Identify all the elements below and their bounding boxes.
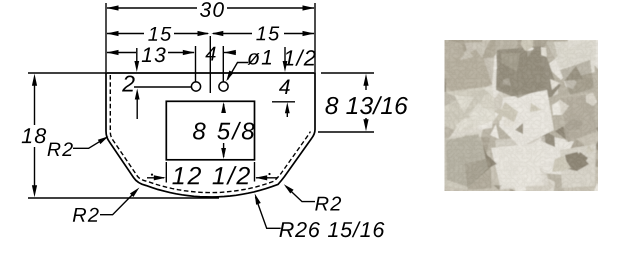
extension line rect left below <box>165 162 167 183</box>
dimension 8 5/8 arrows shafts <box>223 104 225 112</box>
extension line hole1 <box>195 46 197 82</box>
arrowhead dim30 left <box>107 5 119 10</box>
text 1/2 <box>284 50 316 66</box>
centre dot right of dim 12 1/2 <box>268 173 270 175</box>
leader R2 right <box>286 187 315 202</box>
arrowhead R2 upper left <box>98 136 109 144</box>
text 12 1/2 <box>172 166 249 184</box>
text 15 left <box>148 27 171 41</box>
text dia 1 <box>248 50 271 65</box>
dimension 8 13/16 line <box>365 84 367 90</box>
dimension 2 upper arrow shaft <box>136 48 138 62</box>
arrowhead dim 8 5/8 down <box>221 148 226 159</box>
arrowhead dim30 right <box>303 5 315 10</box>
dimension 30 line <box>107 7 197 9</box>
arrowhead dim15R left <box>211 31 223 36</box>
dimension 13 line <box>107 52 136 54</box>
extension line left edge <box>105 3 107 72</box>
hole H2 <box>219 82 228 91</box>
arrowhead dim13 left <box>107 50 119 55</box>
dimension 18 extension top <box>28 72 106 74</box>
extension line hole2 <box>222 46 224 82</box>
text 4 right <box>279 80 290 94</box>
arrowhead dim18 up <box>32 74 37 86</box>
arrowhead R2 right <box>284 184 294 193</box>
extension line rect top right <box>272 101 295 103</box>
text 30 <box>200 2 224 17</box>
text 18 <box>22 128 46 143</box>
text R2 upper left <box>48 142 73 156</box>
arrowhead dim18 down <box>32 185 37 197</box>
extension line right edge <box>314 3 316 72</box>
arrowhead R2 lower left <box>130 188 140 198</box>
text 2 <box>122 75 135 91</box>
leader R26 <box>256 197 281 228</box>
arrowhead dim15L left <box>107 31 119 36</box>
arrowhead dim4 top <box>224 50 236 55</box>
text 8 5/8 <box>193 122 254 140</box>
text R26 15/16 <box>279 221 384 237</box>
dimension 8 13/16 extension bottom <box>318 131 374 133</box>
text R2 right <box>315 197 341 211</box>
text 13 <box>142 47 166 62</box>
leader of hole diameter <box>228 63 249 80</box>
text 4 top <box>205 47 215 61</box>
centre dot left of dim 12 1/2 <box>151 174 153 176</box>
dimension 18 line <box>34 84 36 125</box>
arrowhead dim4R up <box>285 102 290 113</box>
arrowhead hole leader <box>226 71 233 82</box>
extension line rect right below <box>254 162 256 182</box>
arrowhead dim2 down <box>134 61 139 72</box>
dimension 8 13/16 extension top <box>321 72 374 74</box>
arrowhead dim13 right <box>183 50 195 55</box>
arrowhead dim 8 13/16 up <box>363 74 368 86</box>
arrowhead dim 8 5/8 up <box>221 102 226 113</box>
dimension 4 right arrow shaft <box>286 112 288 117</box>
arrowhead dim15L right <box>198 31 210 36</box>
text 15 right <box>256 27 279 41</box>
dimension 1/2 arrow shaft <box>284 47 286 62</box>
arrowhead dim 1/2 down <box>283 61 288 72</box>
dimension 4 top right tail <box>224 52 236 54</box>
dimension 12 1/2 right tail <box>256 177 278 179</box>
arrowhead dim 12 1/2 left <box>154 175 166 180</box>
arrowhead dim15R right <box>303 31 315 36</box>
arrowhead dim2 up <box>135 89 140 100</box>
text 8 13/16 <box>325 96 407 114</box>
hole centre height line <box>134 86 191 88</box>
text R2 lower left <box>73 208 99 222</box>
inner offset edge (dashed) <box>110 75 310 193</box>
dimension 2 lower arrow shaft <box>136 99 138 119</box>
dimension 15 left line <box>107 33 144 35</box>
arrowhead dim 8 13/16 down <box>363 119 368 131</box>
dimension 18 extension bottom <box>28 197 219 199</box>
leader R2 lower left <box>100 191 137 215</box>
arrowhead dim 12 1/2 right <box>255 175 267 180</box>
extension line center <box>209 36 211 93</box>
part outline <box>106 73 315 197</box>
leader R2 upper left <box>73 138 106 149</box>
hole H1 <box>191 82 200 91</box>
arrowhead R26 <box>255 194 261 205</box>
rectangle cutout <box>166 101 254 160</box>
dimension 12 1/2 left tail <box>147 177 164 179</box>
dimension 15 right line <box>213 33 252 35</box>
